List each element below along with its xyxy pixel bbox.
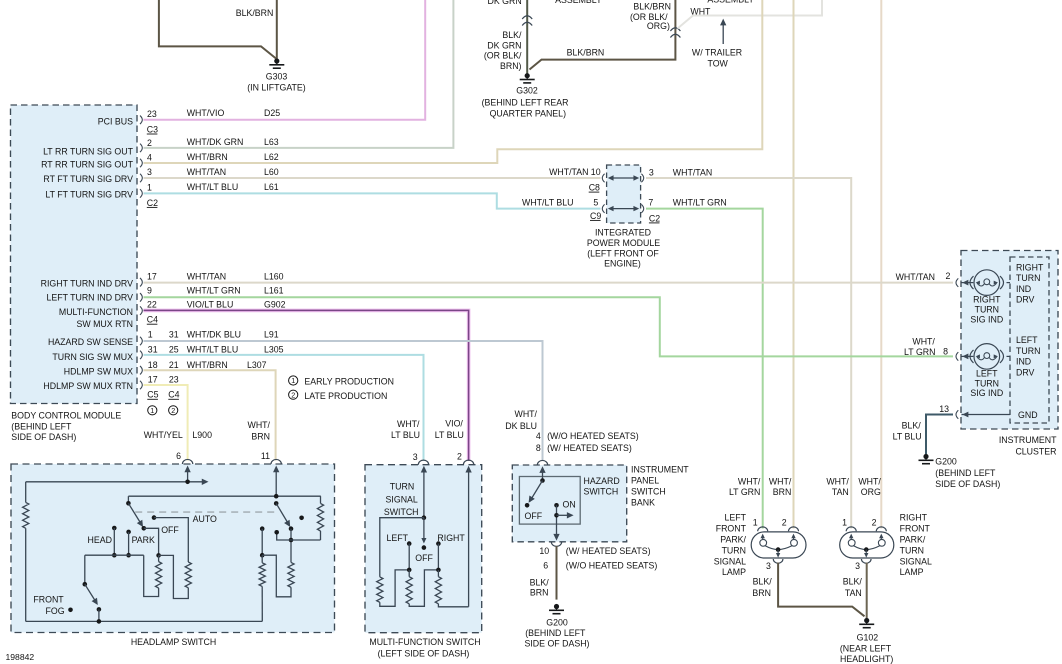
svg-text:TOW: TOW [708,59,729,69]
wire BLK/LT BLU cluster to G200 [926,415,953,455]
multi-function switch box [365,465,482,633]
wire BLK/BRN from rear lamp assembly to G302 [530,0,676,70]
svg-text:(W/ HEATED SEATS): (W/ HEATED SEATS) [566,546,651,556]
svg-text:WHT/LT BLU: WHT/LT BLU [187,345,238,355]
svg-text:RIGHT TURN IND DRV: RIGHT TURN IND DRV [41,278,134,288]
bus at y540 with park2 contact [277,532,321,540]
svg-text:13: 13 [939,404,949,414]
svg-text:SIDE OF DASH): SIDE OF DASH) [11,432,76,442]
svg-text:1: 1 [148,330,153,340]
svg-text:10: 10 [539,546,549,556]
wire pin 6 entry with arrow [187,468,189,482]
svg-text:LT GRN: LT GRN [729,487,760,497]
svg-text:25: 25 [169,345,179,355]
svg-text:SIG IND: SIG IND [970,388,1003,398]
hazard switch inner box [519,477,580,525]
svg-text:SIDE OF DASH): SIDE OF DASH) [935,479,1000,489]
svg-text:INTEGRATED: INTEGRATED [595,227,651,237]
wire WHT trailer tow [678,0,823,29]
svg-text:LEFT: LEFT [1016,335,1038,345]
svg-text:SWITCH: SWITCH [584,487,619,497]
svg-text:2: 2 [782,518,787,528]
svg-text:BRN: BRN [251,432,270,442]
svg-text:3: 3 [147,167,152,177]
svg-text:LAMP: LAMP [722,567,746,577]
svg-text:RT FT TURN SIG DRV: RT FT TURN SIG DRV [43,174,133,184]
svg-text:L307: L307 [247,360,267,370]
wire WHT/VIO D25 riser [144,0,426,120]
hazard ON contact [554,503,559,508]
svg-text:17: 17 [148,374,158,384]
svg-text:LEFT: LEFT [724,513,746,523]
BCM connector pins 17,9,22 C4 [140,278,142,287]
svg-text:3: 3 [855,561,860,571]
svg-text:C8: C8 [589,183,600,193]
svg-text:TAN: TAN [832,487,849,497]
BCM connector C3 pin 23 [140,116,142,125]
svg-text:RIGHT: RIGHT [973,295,1001,305]
svg-text:VIO/LT BLU: VIO/LT BLU [187,299,234,309]
svg-text:SIDE OF DASH): SIDE OF DASH) [524,638,589,648]
body control module box [11,105,138,404]
svg-text:DRV: DRV [1016,368,1035,378]
svg-text:TURN: TURN [975,378,999,388]
svg-text:2: 2 [291,390,295,399]
svg-text:C5: C5 [147,390,158,400]
svg-text:L900: L900 [192,430,212,440]
MF pin 2 [463,460,473,465]
wire BLK/TAN right lamp to G102 [866,563,868,619]
svg-text:(BEHIND LEFT: (BEHIND LEFT [11,422,72,432]
wire BLK/DK GRN (OR BLK/BRN) to G302 [526,0,528,74]
instrument cluster inner box [1010,257,1049,423]
svg-text:LT BLU: LT BLU [435,430,464,440]
svg-text:22: 22 [147,299,157,309]
isolated contact dot [299,516,304,521]
MF wiper arrow to OFF [423,518,425,540]
svg-text:FRONT: FRONT [900,524,931,534]
connector break on BLK/DK GRN wire [522,16,532,19]
svg-text:PARK: PARK [132,535,155,545]
wire WHT/TAN from IPM pin 3 to right front lamp pin 1 [646,178,851,529]
svg-text:L62: L62 [264,152,279,162]
svg-text:IND: IND [1016,284,1031,294]
svg-text:1: 1 [150,406,154,415]
headlamp switch pin 6 [182,459,192,464]
svg-text:SIGNAL: SIGNAL [714,556,746,566]
svg-text:SWITCH: SWITCH [631,487,666,497]
svg-text:WHT/BRN: WHT/BRN [187,152,228,162]
MF feed to Ra [380,518,424,577]
svg-text:WHT/TAN: WHT/TAN [549,167,588,177]
svg-text:ON: ON [563,500,576,510]
svg-text:2: 2 [872,518,877,528]
svg-text:GND: GND [1018,410,1038,420]
MF pin 3 [418,460,428,465]
MF pin3 entry arrow + pivot [423,468,425,518]
svg-text:ORG: ORG [861,487,881,497]
RIGHT contact [436,541,441,546]
svg-text:(NEAR LEFT: (NEAR LEFT [840,644,892,654]
svg-text:RIGHT: RIGHT [1016,262,1044,272]
svg-text:1: 1 [753,518,758,528]
svg-text:HEAD: HEAD [88,535,112,545]
svg-text:TURN: TURN [1016,346,1040,356]
svg-text:(BEHIND LEFT: (BEHIND LEFT [935,468,996,478]
svg-text:2: 2 [147,138,152,148]
svg-text:BLK/BRN: BLK/BRN [633,1,671,11]
wiper2 to R5 vertical [290,529,292,563]
svg-text:18: 18 [148,360,158,370]
ground G200 (cluster) [923,454,928,459]
svg-text:BANK: BANK [631,498,655,508]
svg-text:LAMP: LAMP [900,567,924,577]
svg-text:ASSEMBLY: ASSEMBLY [707,0,754,4]
resistor MF Rb [406,577,412,604]
svg-text:D25: D25 [264,108,280,118]
svg-text:FRONT: FRONT [716,524,747,534]
svg-text:OFF: OFF [161,525,179,535]
svg-text:WHT/DK GRN: WHT/DK GRN [187,137,244,147]
svg-text:G102: G102 [857,632,879,642]
headlamp rotary wiper 1 [127,496,129,503]
wire WHT/LT BLU L305 BCM to MF switch pin 3 [144,355,424,461]
resistor headlamp R2 (auto) [185,562,191,588]
svg-text:INSTRUMENT: INSTRUMENT [631,465,689,475]
svg-text:LT BLU: LT BLU [893,432,922,442]
svg-text:WHT/LT GRN: WHT/LT GRN [673,198,727,208]
svg-text:31: 31 [169,330,179,340]
svg-text:BLK/: BLK/ [502,30,522,40]
svg-text:WHT/VIO: WHT/VIO [187,108,225,118]
BCM connector C2 pins 2,4,3,1 [140,144,142,153]
svg-text:SWITCH: SWITCH [384,507,419,517]
hazard entry arrow [542,469,544,481]
svg-text:L63: L63 [264,137,279,147]
headlamp common bus H3 [128,495,320,497]
wire WHT/LT BLU L61 BCM to IPM pin 5 [144,193,601,208]
headlamp bottom bus H2 [26,620,263,622]
resistor headlamp R5 [288,562,294,587]
svg-text:10: 10 [591,167,601,177]
wire WHT/TAN L160 BCM to cluster pin 2 [144,282,954,284]
svg-text:8: 8 [943,347,948,357]
svg-text:BRN): BRN) [500,61,522,71]
OFF contact path to R1 [144,528,159,555]
svg-text:DRV: DRV [1016,295,1035,305]
svg-text:C2: C2 [147,198,158,208]
svg-text:WHT/DK BLU: WHT/DK BLU [187,330,241,340]
mechanical linkage dashed [135,511,278,513]
svg-text:WHT/: WHT/ [397,419,420,429]
svg-text:AUTO: AUTO [193,514,217,524]
svg-text:G200: G200 [546,618,568,628]
hazard wiper to OFF [530,481,543,502]
svg-text:PARK/: PARK/ [900,535,926,545]
svg-text:FRONT: FRONT [33,595,64,605]
svg-text:HEADLIGHT): HEADLIGHT) [840,654,893,664]
svg-text:FOG: FOG [46,606,65,616]
svg-text:WHT/TAN: WHT/TAN [187,271,226,281]
instrument cluster outer box [961,251,1058,430]
svg-text:WHT/LT BLU: WHT/LT BLU [187,182,238,192]
svg-text:ENGINE): ENGINE) [604,259,641,269]
svg-text:WHT/: WHT/ [858,476,881,486]
svg-text:6: 6 [543,560,548,570]
svg-text:MULTI-FUNCTION: MULTI-FUNCTION [59,307,133,317]
resistor headlamp R3 [320,496,322,503]
svg-text:G303: G303 [266,72,288,82]
svg-text:SIGNAL: SIGNAL [386,494,418,504]
svg-text:LEFT TURN IND DRV: LEFT TURN IND DRV [46,293,133,303]
svg-text:TURN: TURN [390,481,414,491]
wire WHT/ORG from top assembly to right front lamp pin 2 [880,0,882,529]
svg-text:DK GRN: DK GRN [487,0,521,6]
wire BLK/BRN left tail lamp to G303 [159,0,276,59]
svg-text:OFF: OFF [525,511,543,521]
wire WHT/LT GRN L161 BCM to cluster pin 8 [144,297,954,356]
svg-text:198842: 198842 [6,652,35,662]
headlamp feed bus H1 [26,481,203,483]
svg-text:DK GRN: DK GRN [487,41,521,51]
svg-text:IND: IND [1016,357,1031,367]
svg-text:HDLMP SW MUX: HDLMP SW MUX [64,366,133,376]
svg-text:WHT: WHT [690,7,711,17]
svg-text:4: 4 [147,153,152,163]
svg-text:PCI BUS: PCI BUS [98,116,133,126]
svg-text:W/ TRAILER: W/ TRAILER [692,48,742,58]
svg-text:G902: G902 [264,299,286,309]
svg-text:HDLMP SW MUX RTN: HDLMP SW MUX RTN [43,381,133,391]
svg-text:3: 3 [649,168,654,178]
svg-text:TURN SIG SW MUX: TURN SIG SW MUX [52,352,133,362]
svg-text:EARLY PRODUCTION: EARLY PRODUCTION [304,377,394,387]
svg-text:C4: C4 [147,315,158,325]
svg-text:BRN: BRN [530,588,549,598]
svg-text:11: 11 [261,451,270,461]
resistor headlamp R1 (park) [158,555,160,561]
svg-text:G200: G200 [935,457,957,467]
svg-text:2: 2 [171,406,175,415]
svg-text:8: 8 [536,443,541,453]
ground G303 [274,58,279,63]
svg-text:HEADLAMP SWITCH: HEADLAMP SWITCH [131,637,216,647]
right front park/turn signal lamp [840,532,894,558]
svg-text:RIGHT: RIGHT [437,533,465,543]
resistor MF Rc [437,570,439,577]
svg-text:DK BLU: DK BLU [505,421,537,431]
front fog switch [84,555,86,584]
svg-text:3: 3 [413,452,418,462]
svg-text:PANEL: PANEL [631,476,659,486]
head2 contact F [260,526,265,531]
svg-text:1: 1 [291,376,295,385]
svg-text:LEFT: LEFT [387,533,409,543]
svg-text:23: 23 [169,374,179,384]
svg-text:QUARTER PANEL): QUARTER PANEL) [490,109,566,119]
svg-text:2: 2 [457,451,462,461]
svg-text:BLK/: BLK/ [843,577,863,587]
legend early/late production [289,376,298,385]
headlamp switch box [11,464,335,633]
svg-text:WHT/LT GRN: WHT/LT GRN [187,285,241,295]
AUTO contact [152,515,157,520]
svg-text:17: 17 [147,271,157,281]
svg-text:BLK/BRN: BLK/BRN [236,8,274,18]
svg-text:TURN: TURN [900,545,924,555]
svg-text:C2: C2 [649,213,660,223]
svg-text:LEFT: LEFT [976,368,998,378]
svg-text:LT RR TURN SIG OUT: LT RR TURN SIG OUT [43,146,134,156]
svg-text:LATE PRODUCTION: LATE PRODUCTION [304,391,387,401]
svg-text:G302: G302 [516,86,538,96]
svg-text:PARK/: PARK/ [720,535,746,545]
svg-text:23: 23 [147,109,157,119]
svg-text:(BEHIND LEFT REAR: (BEHIND LEFT REAR [482,98,569,108]
svg-text:BLK/: BLK/ [530,577,550,587]
svg-text:HAZARD: HAZARD [584,476,620,486]
MF pin2 internal riser [468,468,470,607]
integrated power module box [607,165,641,223]
park/head bus H4 [85,554,144,556]
svg-text:(BEHIND LEFT: (BEHIND LEFT [525,628,586,638]
svg-text:TURN: TURN [975,305,999,315]
wire BLK/BRN left lamp to G102 [778,563,864,617]
svg-text:SW MUX RTN: SW MUX RTN [76,319,133,329]
wire WHT/BRN from top assembly to left front lamp pin 2 [793,0,795,529]
svg-text:SIG IND: SIG IND [970,314,1003,324]
svg-text:POWER MODULE: POWER MODULE [587,238,660,248]
svg-text:WHT/: WHT/ [248,420,271,430]
svg-text:WHT/: WHT/ [826,476,849,486]
resistor headlamp left R0 [25,482,27,503]
wire WHT/TAN L60 BCM to IPM pin 10 [144,177,601,179]
indicator bulb RIGHT TURN SIG IND [956,278,958,287]
svg-text:LT BLU: LT BLU [391,430,420,440]
wire WHT/BRN L62 riser to right rear lamp [144,0,763,163]
headlamp switch pin 11 [271,459,281,464]
svg-text:WHT/: WHT/ [769,476,792,486]
svg-text:L161: L161 [264,285,284,295]
svg-text:L305: L305 [264,345,284,355]
svg-text:6: 6 [176,451,181,461]
svg-text:1: 1 [842,518,847,528]
svg-text:(LEFT FRONT OF: (LEFT FRONT OF [587,248,659,258]
svg-text:LT GRN: LT GRN [904,347,935,357]
svg-text:BODY CONTROL MODULE: BODY CONTROL MODULE [11,411,121,421]
svg-text:BRN: BRN [752,588,771,598]
wire WHT/DK GRN L63 riser to left rear lamp [144,0,454,148]
svg-text:C4: C4 [168,390,179,400]
svg-text:1: 1 [147,182,152,192]
resistor headlamp R4 [261,555,263,563]
svg-text:WHT/YEL: WHT/YEL [144,430,183,440]
svg-text:WHT/TAN: WHT/TAN [673,168,712,178]
cluster GND pin 13 [956,410,958,419]
svg-text:L61: L61 [264,182,279,192]
svg-text:(W/O HEATED SEATS): (W/O HEATED SEATS) [547,431,639,441]
left front park/turn signal lamp [751,532,806,558]
svg-text:RT RR TURN SIG OUT: RT RR TURN SIG OUT [41,160,134,170]
svg-text:INSTRUMENT: INSTRUMENT [999,435,1057,445]
ground G102 [864,618,869,623]
svg-text:C9: C9 [590,211,601,221]
svg-text:CLUSTER: CLUSTER [1015,446,1056,456]
svg-text:TURN: TURN [1016,273,1040,283]
svg-text:BRN: BRN [773,487,792,497]
svg-text:L160: L160 [264,271,284,281]
wire WHT/LT GRN from IPM pin 7 to left front lamp pin 1 [646,209,763,529]
svg-text:OFF: OFF [415,553,433,563]
svg-text:WHT/LT BLU: WHT/LT BLU [522,197,573,207]
ground G302 [525,73,530,78]
svg-text:ORG): ORG) [647,21,670,31]
LEFT contact [407,541,412,546]
svg-text:4: 4 [536,431,541,441]
svg-text:5: 5 [593,197,598,207]
svg-text:(OR BLK/: (OR BLK/ [484,51,522,61]
svg-text:(W/O HEATED SEATS): (W/O HEATED SEATS) [566,560,658,570]
IPM row 2 arrows pins 5-7 [611,208,636,210]
svg-text:WHT/BRN: WHT/BRN [187,360,228,370]
instrument panel switch bank box [512,465,626,542]
svg-text:SIGNAL: SIGNAL [900,556,932,566]
svg-text:(LEFT SIDE OF DASH): (LEFT SIDE OF DASH) [378,648,470,658]
svg-text:VIO/: VIO/ [445,419,463,429]
svg-text:(W/ HEATED SEATS): (W/ HEATED SEATS) [547,443,632,453]
svg-text:9: 9 [147,285,152,295]
svg-text:HAZARD SW SENSE: HAZARD SW SENSE [48,337,133,347]
PARK contact [126,530,131,535]
svg-text:ASSEMBLY: ASSEMBLY [555,0,602,5]
svg-text:(IN LIFTGATE): (IN LIFTGATE) [247,83,306,93]
svg-text:MULTI-FUNCTION SWITCH: MULTI-FUNCTION SWITCH [369,637,480,647]
indicator bulb LEFT TURN SIG IND [956,352,958,361]
rotary wiper 2 [274,501,279,506]
wire BLK/BRN hazard to G200 [556,546,558,600]
svg-text:WHT/: WHT/ [738,476,761,486]
svg-text:BLK/: BLK/ [753,577,773,587]
svg-text:LT FT TURN SIG DRV: LT FT TURN SIG DRV [45,189,133,199]
svg-text:21: 21 [169,360,179,370]
svg-text:TAN: TAN [845,588,862,598]
svg-text:WHT/: WHT/ [515,409,538,419]
arrow W/ TRAILER TOW [722,22,724,44]
resistor MF Ra [377,577,383,602]
HEAD contact [112,526,117,531]
wire BLK/BRN right tail lamp drop to G303 [276,0,278,60]
IPM row 1 arrows pins 10-3 [611,177,636,179]
ground G200 (hazard) [554,604,559,609]
svg-text:RIGHT: RIGHT [900,513,928,523]
wire VIO/LT BLU G902 BCM to MF switch pin 2 [144,310,469,461]
svg-text:C3: C3 [147,124,158,134]
svg-text:31: 31 [148,345,158,355]
svg-text:BLK/: BLK/ [902,421,922,431]
wire WHT/DK BLU L91 BCM to hazard switch [144,341,543,461]
wire WHT/BRN L307 BCM to headlamp switch pin 11 [144,370,276,460]
svg-text:3: 3 [766,561,771,571]
BCM connector pins early/late 1/31 31/25 18/21 17/23 [140,337,142,346]
svg-text:L91: L91 [264,330,279,340]
svg-text:WHT/TAN: WHT/TAN [187,167,226,177]
svg-text:2: 2 [945,271,950,281]
headlamp right section: pin 11 entry [275,468,277,496]
svg-text:L60: L60 [264,167,279,177]
svg-text:WHT/: WHT/ [912,337,935,347]
svg-text:TURN: TURN [722,545,746,555]
connector break on BLK/BRN (OR BLK/ORG) wire [670,28,680,31]
